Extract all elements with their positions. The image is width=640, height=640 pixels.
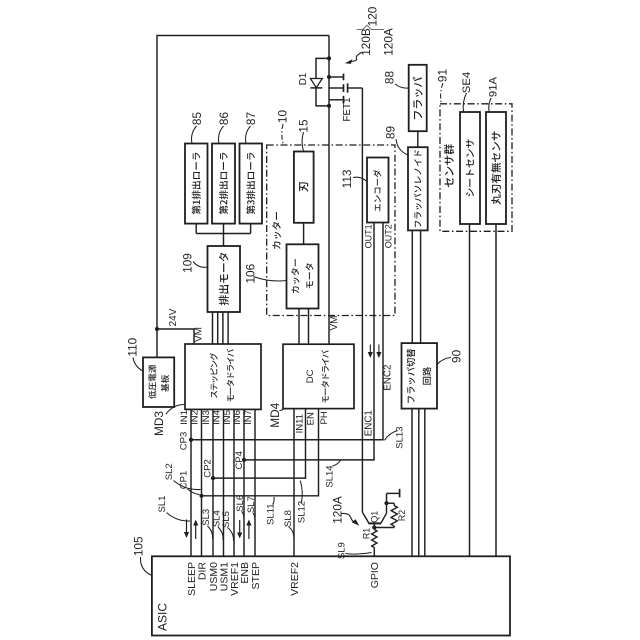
svg-text:VREF2: VREF2 bbox=[289, 562, 301, 596]
svg-text:OUT2: OUT2 bbox=[383, 224, 393, 248]
wire FET1 gate lead bbox=[348, 87, 363, 89]
label CP2 bbox=[203, 459, 214, 477]
wire SL6 (IN6-ENB) bbox=[243, 409, 245, 556]
label sensor group (katakana) bbox=[444, 144, 454, 187]
wire SL3 (IN3-USM0) bbox=[212, 409, 214, 556]
node CP2 junction dot bbox=[211, 476, 215, 480]
svg-text:FET1: FET1 bbox=[342, 98, 353, 122]
node collector/R2 junction dot bbox=[384, 501, 388, 505]
svg-text:91: 91 bbox=[436, 69, 450, 82]
svg-text:24V: 24V bbox=[168, 308, 179, 326]
svg-text:ASIC: ASIC bbox=[156, 603, 170, 631]
svg-text:R1: R1 bbox=[362, 528, 372, 539]
svg-text:D1: D1 bbox=[298, 73, 309, 86]
label pin STEP bbox=[250, 562, 262, 589]
svg-text:DC: DC bbox=[305, 369, 316, 383]
svg-text:120: 120 bbox=[366, 6, 380, 26]
label SL13 bbox=[395, 427, 406, 449]
leader 105 bbox=[140, 557, 151, 576]
block 86 second discharge roller bbox=[212, 144, 235, 224]
resistor R2 bbox=[391, 503, 397, 527]
leader SL5 bbox=[228, 528, 234, 542]
label SL14 bbox=[325, 465, 336, 487]
svg-text:120A: 120A bbox=[382, 28, 396, 56]
wire R2 top to collector bbox=[387, 502, 395, 504]
svg-text:VM: VM bbox=[329, 316, 340, 331]
label 87 bbox=[244, 112, 258, 125]
dash-dot box 10 cutter unit bbox=[267, 145, 395, 316]
svg-text:DIR: DIR bbox=[196, 562, 208, 581]
leader SL13 bbox=[385, 431, 398, 441]
label MD3 bbox=[152, 411, 166, 436]
label SL5 bbox=[221, 511, 232, 528]
leader MD3 bbox=[166, 405, 185, 415]
label 113 bbox=[340, 169, 354, 188]
label pin VREF2 bbox=[289, 562, 301, 596]
node Q1 base junction dot bbox=[372, 525, 376, 529]
svg-text:STEP: STEP bbox=[250, 562, 262, 589]
block 85 first discharge roller bbox=[185, 144, 208, 224]
svg-text:10: 10 bbox=[276, 110, 290, 124]
leader 109 bbox=[193, 262, 208, 268]
svg-text:106: 106 bbox=[244, 263, 258, 283]
leader 10 (dash-dot) bbox=[282, 124, 283, 145]
leader 87 bbox=[245, 126, 250, 144]
label pin IN3 bbox=[201, 410, 212, 425]
svg-text:IN3: IN3 bbox=[201, 410, 212, 425]
label FET1 bbox=[342, 98, 353, 122]
block 109 discharge motor bbox=[208, 246, 241, 312]
svg-text:CP2: CP2 bbox=[203, 459, 214, 477]
label pin USM0 bbox=[208, 562, 220, 591]
svg-text:89: 89 bbox=[384, 126, 398, 139]
block 110 low-voltage power board bbox=[143, 357, 174, 407]
label pin IN4 bbox=[212, 410, 223, 425]
svg-text:SL7: SL7 bbox=[246, 496, 257, 513]
label cutter (katakana) on dash-dot box bbox=[272, 212, 281, 249]
label 85 bbox=[190, 112, 204, 126]
block SE4 sheet sensor bbox=[460, 112, 480, 224]
junction dot FET drain tap bbox=[327, 75, 331, 79]
diode D1 bbox=[310, 58, 329, 106]
svg-text:MD3: MD3 bbox=[152, 411, 166, 436]
label SL9 bbox=[337, 542, 348, 559]
svg-text:PH: PH bbox=[319, 411, 330, 424]
label 86 bbox=[217, 112, 231, 126]
wire SL1 (IN1-SLEEP) bbox=[190, 409, 192, 556]
svg-text:GPIO: GPIO bbox=[369, 562, 381, 588]
svg-text:EN: EN bbox=[306, 412, 317, 425]
label pin VREF1 bbox=[229, 562, 241, 596]
leader 91A bbox=[489, 98, 491, 112]
wire flapper to solenoid bbox=[417, 131, 419, 147]
leader SL8 bbox=[288, 527, 294, 538]
label R1 bbox=[362, 528, 372, 539]
svg-text:ENC2: ENC2 bbox=[383, 365, 394, 391]
wires discharge motor to MD3 (4) bbox=[213, 312, 229, 344]
block 89 flapper solenoid bbox=[408, 147, 428, 230]
arrow up beside SL1 bbox=[193, 520, 198, 540]
label 105 bbox=[132, 536, 146, 556]
leader 91 (dash-dot) bbox=[441, 83, 443, 104]
svg-text:113: 113 bbox=[340, 169, 354, 188]
label pin IN2 bbox=[190, 410, 201, 425]
label SL8 bbox=[283, 510, 294, 527]
arrow down on SL6 bbox=[237, 520, 242, 539]
svg-text:90: 90 bbox=[450, 349, 464, 363]
svg-text:ENC1: ENC1 bbox=[364, 410, 375, 436]
label pin IN5 bbox=[222, 410, 233, 425]
label SL4 bbox=[211, 510, 222, 527]
label 89 bbox=[384, 126, 398, 139]
svg-text:85: 85 bbox=[190, 112, 204, 126]
power supply bar bbox=[399, 489, 401, 498]
label pin IN1 bbox=[179, 410, 190, 425]
block 90 flapper switching circuit bbox=[402, 343, 438, 409]
block 88 flapper bbox=[409, 65, 427, 131]
label SL3 bbox=[201, 509, 212, 526]
leader SE4 bbox=[463, 93, 466, 112]
wire round-blade sensor to ASIC bbox=[495, 224, 497, 556]
wire CP1 line to MD4 PH bbox=[202, 409, 319, 496]
block 15 blade bbox=[294, 152, 314, 223]
svg-text:88: 88 bbox=[383, 71, 397, 85]
leader 113 bbox=[353, 177, 367, 181]
leader SL7 bbox=[253, 513, 255, 519]
label pin SLEEP bbox=[186, 562, 198, 596]
label SL12 bbox=[297, 501, 308, 523]
svg-text:SL5: SL5 bbox=[221, 511, 232, 528]
label pin OUT1 bbox=[364, 224, 374, 248]
wires solenoid to flapper switching circuit (2) bbox=[412, 230, 420, 343]
leader 15 bbox=[302, 132, 304, 152]
label pin PH bbox=[319, 411, 330, 424]
wire base node to R2 bottom bbox=[374, 527, 394, 529]
label pin DIR bbox=[196, 562, 208, 581]
block MD4 DC motor driver bbox=[283, 344, 354, 408]
svg-text:SL11: SL11 bbox=[265, 503, 276, 524]
svg-text:SL8: SL8 bbox=[283, 510, 294, 527]
label CP3 bbox=[179, 432, 190, 450]
arrow up beside SL7 bbox=[246, 520, 251, 540]
op-amp U1 equivalent - block MD3 stepping motor driver bbox=[185, 344, 261, 409]
wire SL5 (IN5-VREF1) bbox=[233, 409, 235, 556]
leader arrow from 120B/120A to power line bbox=[345, 53, 362, 64]
leader 90 bbox=[437, 358, 451, 365]
label pin EN bbox=[306, 412, 317, 425]
svg-text:109: 109 bbox=[180, 253, 194, 273]
svg-text:86: 86 bbox=[217, 112, 231, 126]
leader SL6 bbox=[242, 512, 244, 518]
label 120A (pointing at gate line) bbox=[330, 496, 344, 524]
arrow direction ENC2 bbox=[376, 345, 381, 359]
label R2 bbox=[397, 510, 407, 521]
arrow down on SL1 bbox=[184, 520, 189, 539]
wire CP2 line to MD4 EN bbox=[213, 409, 306, 479]
leader 89 bbox=[396, 139, 408, 155]
label pin OUT2 bbox=[383, 224, 393, 248]
wire Q1 collector up bbox=[386, 493, 388, 513]
label VM (MD3 supply) bbox=[193, 327, 204, 342]
wire blade to cutter motor bbox=[303, 223, 305, 244]
bracket grouping 120B/120A into 120 bbox=[357, 25, 384, 29]
svg-text:87: 87 bbox=[244, 112, 258, 125]
label pin GPIO bbox=[369, 562, 381, 588]
label 15 bbox=[297, 119, 311, 133]
label pin IN11 bbox=[295, 414, 306, 433]
svg-text:15: 15 bbox=[297, 119, 311, 133]
label SL11 bbox=[265, 503, 276, 524]
leader 106 bbox=[254, 277, 287, 281]
label 10 bbox=[276, 110, 290, 124]
label pin ENB bbox=[239, 562, 251, 584]
leader SL2 bbox=[174, 481, 201, 490]
label 120A (top) bbox=[382, 28, 396, 56]
svg-text:SL6: SL6 bbox=[235, 495, 246, 512]
block 105 ASIC bbox=[152, 556, 510, 635]
label 120 bbox=[366, 6, 380, 26]
leader SL9 bbox=[346, 553, 372, 555]
dash-dot box 91 sensor group bbox=[440, 104, 512, 232]
svg-text:MD4: MD4 bbox=[268, 402, 282, 427]
svg-text:SL2: SL2 bbox=[164, 463, 175, 480]
svg-text:SL13: SL13 bbox=[395, 427, 406, 449]
svg-text:120B: 120B bbox=[359, 28, 373, 56]
label ENC1 bbox=[364, 410, 375, 436]
wire VREF2 (MD4 IN11) bbox=[293, 409, 295, 557]
label CP4 bbox=[234, 451, 245, 469]
wire main 120B line (FET drain-source chain down to MD4 VM) bbox=[328, 36, 330, 345]
leader 110 bbox=[133, 358, 143, 372]
svg-text:VM: VM bbox=[193, 327, 204, 342]
svg-text:SL12: SL12 bbox=[297, 501, 308, 523]
node CP4 junction dot bbox=[242, 458, 246, 462]
label SL1 bbox=[157, 496, 168, 513]
label 120B bbox=[359, 28, 373, 56]
node CP1 junction dot bbox=[199, 494, 203, 498]
leader SL11 bbox=[273, 497, 274, 505]
wire ENC2 from encoder OUT2 to CP3 line bbox=[191, 223, 383, 440]
label 91 bbox=[436, 69, 450, 82]
svg-text:110: 110 bbox=[126, 337, 140, 356]
leader 86 bbox=[218, 126, 223, 144]
label MD4 bbox=[268, 402, 282, 427]
wire SL4 (IN4-USM1) bbox=[223, 409, 225, 556]
wires flapper switching circuit to ASIC (3) bbox=[412, 409, 425, 557]
wire rollers to discharge motor bus bbox=[196, 224, 250, 246]
leader 85 bbox=[191, 126, 196, 144]
label 24V bbox=[168, 308, 179, 326]
svg-text:R2: R2 bbox=[397, 510, 407, 521]
leader MD4 bbox=[280, 409, 285, 411]
label SL7 bbox=[246, 496, 257, 513]
label pin IN7 bbox=[243, 410, 254, 425]
leader arrow 120A bbox=[342, 513, 360, 525]
svg-text:120A: 120A bbox=[330, 496, 344, 524]
wire collector to supply bar bbox=[387, 492, 400, 494]
svg-text:OUT1: OUT1 bbox=[364, 224, 374, 248]
leader SL4 bbox=[218, 527, 223, 541]
wire 24V rail from low-voltage power board up and across to FET drain bbox=[157, 36, 329, 358]
svg-text:SL1: SL1 bbox=[157, 496, 168, 513]
leader SL14 bbox=[333, 461, 341, 467]
wire SL7 (IN7-STEP) bbox=[254, 409, 256, 556]
node CP3 junction dot bbox=[189, 438, 193, 442]
label ENC2 bbox=[383, 365, 394, 391]
label 109 bbox=[180, 253, 194, 273]
block cutter motor bbox=[287, 244, 319, 308]
leader SL3 bbox=[208, 526, 213, 539]
block 91A round-blade presence sensor bbox=[486, 112, 506, 224]
label pin USM1 bbox=[218, 562, 230, 591]
svg-text:SL14: SL14 bbox=[325, 465, 336, 487]
transistor FET1 (MOSFET) bbox=[329, 74, 348, 104]
block 113 encoder bbox=[367, 158, 389, 223]
junction dot 24V/VM branch bbox=[155, 327, 159, 331]
svg-text:91A: 91A bbox=[488, 76, 500, 97]
svg-text:Q1: Q1 bbox=[370, 511, 380, 523]
label 91A bbox=[488, 76, 500, 97]
arrow direction ENC1 bbox=[368, 345, 373, 359]
transistor Q1 bbox=[362, 512, 386, 527]
resistor R1 bbox=[372, 528, 377, 557]
junction dot D1 anode bbox=[327, 56, 331, 60]
wire sheet sensor to ASIC bbox=[469, 224, 471, 556]
wire VM branch to MD3 bbox=[157, 329, 194, 344]
leader 88 bbox=[395, 84, 409, 88]
wires cutter motor to MD4 (2) bbox=[299, 309, 309, 345]
block 87 third discharge roller bbox=[240, 144, 263, 224]
svg-text:CP3: CP3 bbox=[179, 432, 190, 450]
label CP1 bbox=[178, 471, 189, 489]
label 110 bbox=[126, 337, 140, 356]
svg-text:CP4: CP4 bbox=[234, 451, 245, 469]
wire SL2 (IN2-DIR) bbox=[201, 409, 203, 556]
label SL2 bbox=[164, 463, 175, 480]
label D1 bbox=[298, 73, 309, 86]
svg-text:IN1: IN1 bbox=[179, 410, 190, 425]
wire ENC1 from encoder OUT1 to CP4 line bbox=[244, 223, 374, 460]
label SE4 bbox=[461, 72, 473, 93]
label 106 bbox=[244, 263, 258, 283]
svg-text:SE4: SE4 bbox=[461, 72, 473, 93]
label SL6 bbox=[235, 495, 246, 512]
leader SL1 bbox=[167, 513, 191, 522]
svg-text:105: 105 bbox=[132, 536, 146, 556]
leader SL12 bbox=[300, 481, 302, 504]
leader CP1 bbox=[188, 489, 200, 495]
label 90 bbox=[450, 349, 464, 363]
label ASIC bbox=[156, 603, 170, 631]
label 88 bbox=[383, 71, 397, 85]
label VM (MD4 supply) bbox=[329, 316, 340, 331]
junction dot D1 cathode bbox=[327, 104, 331, 108]
wire gate line down to Q1 emitter bbox=[361, 88, 363, 512]
svg-text:IN11: IN11 bbox=[295, 414, 306, 433]
label Q1 bbox=[370, 511, 380, 523]
label pin IN6 bbox=[232, 410, 243, 425]
